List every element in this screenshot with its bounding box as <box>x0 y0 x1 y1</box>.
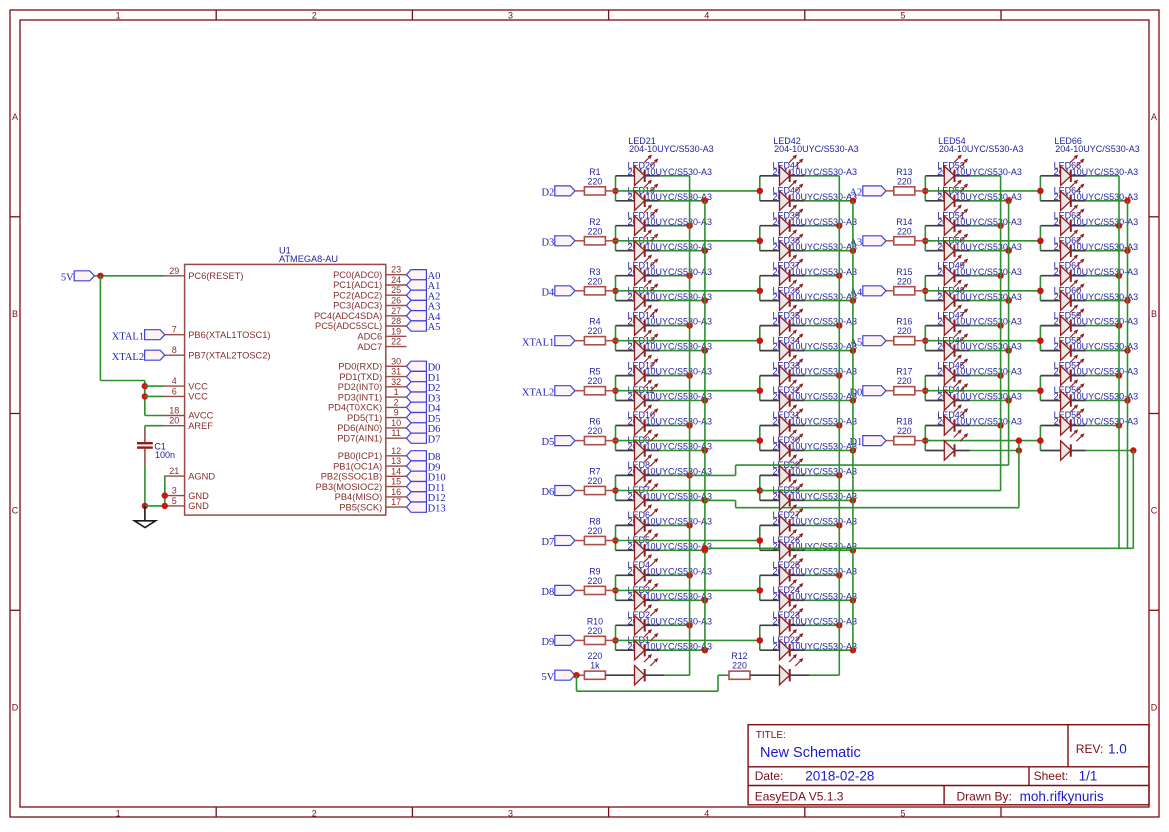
svg-text:AVCC: AVCC <box>188 411 213 421</box>
svg-text:R10: R10 <box>587 616 603 626</box>
svg-text:220: 220 <box>588 476 603 486</box>
svg-text:R1: R1 <box>589 167 600 177</box>
svg-text:PB2(SSOC1B): PB2(SSOC1B) <box>321 472 382 482</box>
svg-text:C: C <box>1151 506 1158 516</box>
svg-text:PC6(RESET): PC6(RESET) <box>188 271 243 281</box>
svg-text:Date:: Date: <box>755 769 784 783</box>
svg-text:5: 5 <box>172 496 177 506</box>
svg-text:220: 220 <box>897 326 912 336</box>
svg-text:1/1: 1/1 <box>1079 769 1098 784</box>
svg-text:D0: D0 <box>849 387 862 398</box>
svg-text:11: 11 <box>391 428 400 438</box>
svg-text:PB0(ICP1): PB0(ICP1) <box>338 451 382 461</box>
svg-text:22: 22 <box>391 337 401 347</box>
svg-text:AGND: AGND <box>188 471 215 481</box>
svg-text:A2: A2 <box>849 188 862 199</box>
svg-text:27: 27 <box>391 306 401 316</box>
svg-text:100n: 100n <box>155 450 175 460</box>
svg-text:R12: R12 <box>731 651 747 661</box>
svg-text:A: A <box>1151 112 1157 122</box>
svg-text:2018-02-28: 2018-02-28 <box>805 769 874 784</box>
svg-text:D1: D1 <box>849 437 862 448</box>
svg-text:204-10UYC/S530-A3: 204-10UYC/S530-A3 <box>629 144 714 154</box>
svg-text:9: 9 <box>394 408 399 418</box>
svg-text:PB3(MOSIOC2): PB3(MOSIOC2) <box>316 482 383 492</box>
svg-text:220: 220 <box>732 661 747 671</box>
svg-text:220: 220 <box>897 176 912 186</box>
svg-text:R14: R14 <box>896 217 912 227</box>
svg-text:B: B <box>1151 309 1157 319</box>
svg-text:PC2(ADC2): PC2(ADC2) <box>333 290 382 300</box>
svg-text:3: 3 <box>508 809 513 819</box>
svg-text:15: 15 <box>391 477 401 487</box>
svg-text:VCC: VCC <box>188 381 208 391</box>
svg-text:1.0: 1.0 <box>1108 742 1127 757</box>
svg-text:21: 21 <box>169 466 179 476</box>
svg-text:D7: D7 <box>428 434 441 445</box>
svg-text:PC5(ADC5SCL): PC5(ADC5SCL) <box>315 321 382 331</box>
svg-text:moh.rifkynuris: moh.rifkynuris <box>1020 789 1104 804</box>
svg-text:16: 16 <box>391 487 401 497</box>
svg-text:1: 1 <box>394 387 399 397</box>
svg-text:5V: 5V <box>61 272 74 283</box>
svg-text:220: 220 <box>897 276 912 286</box>
svg-text:REV:: REV: <box>1076 742 1104 756</box>
svg-text:A5: A5 <box>849 337 862 348</box>
svg-text:TITLE:: TITLE: <box>756 730 786 741</box>
svg-text:220: 220 <box>588 276 603 286</box>
svg-text:R2: R2 <box>589 217 600 227</box>
svg-text:28: 28 <box>391 316 401 326</box>
svg-text:Drawn By:: Drawn By: <box>957 790 1012 804</box>
svg-text:R15: R15 <box>896 267 912 277</box>
svg-text:R4: R4 <box>589 317 600 327</box>
svg-text:D8: D8 <box>541 587 554 598</box>
svg-text:XTAL2: XTAL2 <box>522 387 554 398</box>
svg-text:R7: R7 <box>589 467 600 477</box>
svg-text:A5: A5 <box>428 322 441 333</box>
svg-text:220: 220 <box>897 226 912 236</box>
svg-text:A3: A3 <box>849 237 862 248</box>
svg-text:30: 30 <box>391 356 401 366</box>
svg-text:PD4(T0XCK): PD4(T0XCK) <box>328 403 382 413</box>
svg-text:GND: GND <box>188 491 209 501</box>
svg-text:23: 23 <box>391 265 401 275</box>
svg-text:AREF: AREF <box>188 421 213 431</box>
svg-text:PB5(SCK): PB5(SCK) <box>339 502 382 512</box>
svg-text:D: D <box>1151 702 1158 712</box>
svg-text:19: 19 <box>391 326 401 336</box>
svg-text:R18: R18 <box>896 417 912 427</box>
svg-text:XTAL1: XTAL1 <box>112 331 144 342</box>
svg-text:17: 17 <box>391 497 401 507</box>
svg-text:PD7(AIN1): PD7(AIN1) <box>337 433 382 443</box>
svg-text:204-10UYC/S530-A3: 204-10UYC/S530-A3 <box>1055 144 1140 154</box>
svg-text:PD6(AIN0): PD6(AIN0) <box>337 423 382 433</box>
svg-text:204-10UYC/S530-A3: 204-10UYC/S530-A3 <box>774 144 859 154</box>
svg-text:ATMEGA8-AU: ATMEGA8-AU <box>279 254 338 264</box>
svg-text:6: 6 <box>172 386 177 396</box>
svg-text:220: 220 <box>897 376 912 386</box>
svg-text:EasyEDA V5.1.3: EasyEDA V5.1.3 <box>755 790 844 804</box>
svg-text:3: 3 <box>172 486 177 496</box>
svg-text:XTAL1: XTAL1 <box>522 337 554 348</box>
svg-text:5V: 5V <box>541 672 554 683</box>
svg-text:220: 220 <box>588 426 603 436</box>
svg-text:20: 20 <box>169 416 179 426</box>
svg-text:PD3(INT1): PD3(INT1) <box>338 392 382 402</box>
svg-text:PB4(MISO): PB4(MISO) <box>335 492 383 502</box>
svg-text:220: 220 <box>588 651 603 661</box>
svg-text:B: B <box>12 309 18 319</box>
svg-text:R9: R9 <box>589 566 600 576</box>
svg-text:D13: D13 <box>428 503 446 514</box>
svg-text:D4: D4 <box>541 287 555 298</box>
svg-text:5: 5 <box>900 11 905 21</box>
svg-text:New Schematic: New Schematic <box>760 745 861 761</box>
svg-text:3: 3 <box>508 11 513 21</box>
svg-text:2: 2 <box>394 397 399 407</box>
svg-text:R5: R5 <box>589 367 600 377</box>
svg-text:4: 4 <box>704 809 709 819</box>
svg-text:220: 220 <box>588 576 603 586</box>
svg-text:R3: R3 <box>589 267 600 277</box>
svg-text:XTAL2: XTAL2 <box>112 352 144 363</box>
svg-text:R6: R6 <box>589 417 600 427</box>
svg-text:D7: D7 <box>541 537 554 548</box>
svg-text:PB6(XTAL1TOSC1): PB6(XTAL1TOSC1) <box>188 330 270 340</box>
svg-text:PD0(RXD): PD0(RXD) <box>338 362 382 372</box>
svg-text:PD5(T1): PD5(T1) <box>347 413 382 423</box>
svg-text:1k: 1k <box>590 661 600 671</box>
svg-text:12: 12 <box>391 446 401 456</box>
svg-text:29: 29 <box>169 266 179 276</box>
svg-text:204-10UYC/S530-A3: 204-10UYC/S530-A3 <box>939 144 1024 154</box>
svg-text:1: 1 <box>116 809 121 819</box>
svg-text:24: 24 <box>391 275 401 285</box>
svg-text:PD2(INT0): PD2(INT0) <box>338 382 382 392</box>
svg-text:220: 220 <box>588 626 603 636</box>
svg-text:D6: D6 <box>541 487 554 498</box>
svg-text:220: 220 <box>588 226 603 236</box>
svg-text:PB7(XTAL2TOSC2): PB7(XTAL2TOSC2) <box>188 350 270 360</box>
svg-text:A: A <box>12 112 18 122</box>
svg-text:220: 220 <box>588 526 603 536</box>
svg-text:D: D <box>12 702 19 712</box>
svg-text:4: 4 <box>172 376 177 386</box>
svg-text:PC4(ADC4SDA): PC4(ADC4SDA) <box>314 311 382 321</box>
svg-text:8: 8 <box>172 345 177 355</box>
svg-text:VCC: VCC <box>188 392 208 402</box>
svg-text:ADC6: ADC6 <box>357 332 382 342</box>
svg-text:PB1(OC1A): PB1(OC1A) <box>333 461 382 471</box>
svg-text:2: 2 <box>312 11 317 21</box>
svg-text:7: 7 <box>172 325 177 335</box>
svg-text:220: 220 <box>897 426 912 436</box>
svg-text:PD1(TXD): PD1(TXD) <box>339 372 382 382</box>
svg-text:13: 13 <box>391 456 401 466</box>
svg-text:D2: D2 <box>541 188 554 199</box>
svg-text:A4: A4 <box>849 287 863 298</box>
svg-text:D5: D5 <box>541 437 554 448</box>
svg-text:R13: R13 <box>896 167 912 177</box>
svg-text:D9: D9 <box>541 637 554 648</box>
svg-text:2: 2 <box>312 809 317 819</box>
svg-text:220: 220 <box>588 376 603 386</box>
svg-text:1: 1 <box>116 11 121 21</box>
svg-text:R17: R17 <box>896 367 912 377</box>
svg-text:18: 18 <box>169 406 179 416</box>
svg-text:25: 25 <box>391 285 401 295</box>
svg-text:4: 4 <box>704 11 709 21</box>
svg-text:D3: D3 <box>541 237 554 248</box>
svg-text:C: C <box>12 506 19 516</box>
svg-text:220: 220 <box>588 176 603 186</box>
svg-text:10: 10 <box>391 418 401 428</box>
svg-text:5: 5 <box>900 809 905 819</box>
svg-text:14: 14 <box>391 466 401 476</box>
svg-text:ADC7: ADC7 <box>357 342 382 352</box>
svg-text:PC3(ADC3): PC3(ADC3) <box>333 301 382 311</box>
svg-text:PC0(ADC0): PC0(ADC0) <box>333 270 382 280</box>
svg-text:R8: R8 <box>589 517 600 527</box>
svg-text:PC1(ADC1): PC1(ADC1) <box>333 280 382 290</box>
svg-text:26: 26 <box>391 296 401 306</box>
svg-text:Sheet:: Sheet: <box>1034 769 1069 783</box>
svg-text:GND: GND <box>188 501 209 511</box>
svg-text:32: 32 <box>391 377 401 387</box>
svg-text:220: 220 <box>588 326 603 336</box>
svg-text:31: 31 <box>391 367 401 377</box>
svg-text:R16: R16 <box>896 317 912 327</box>
